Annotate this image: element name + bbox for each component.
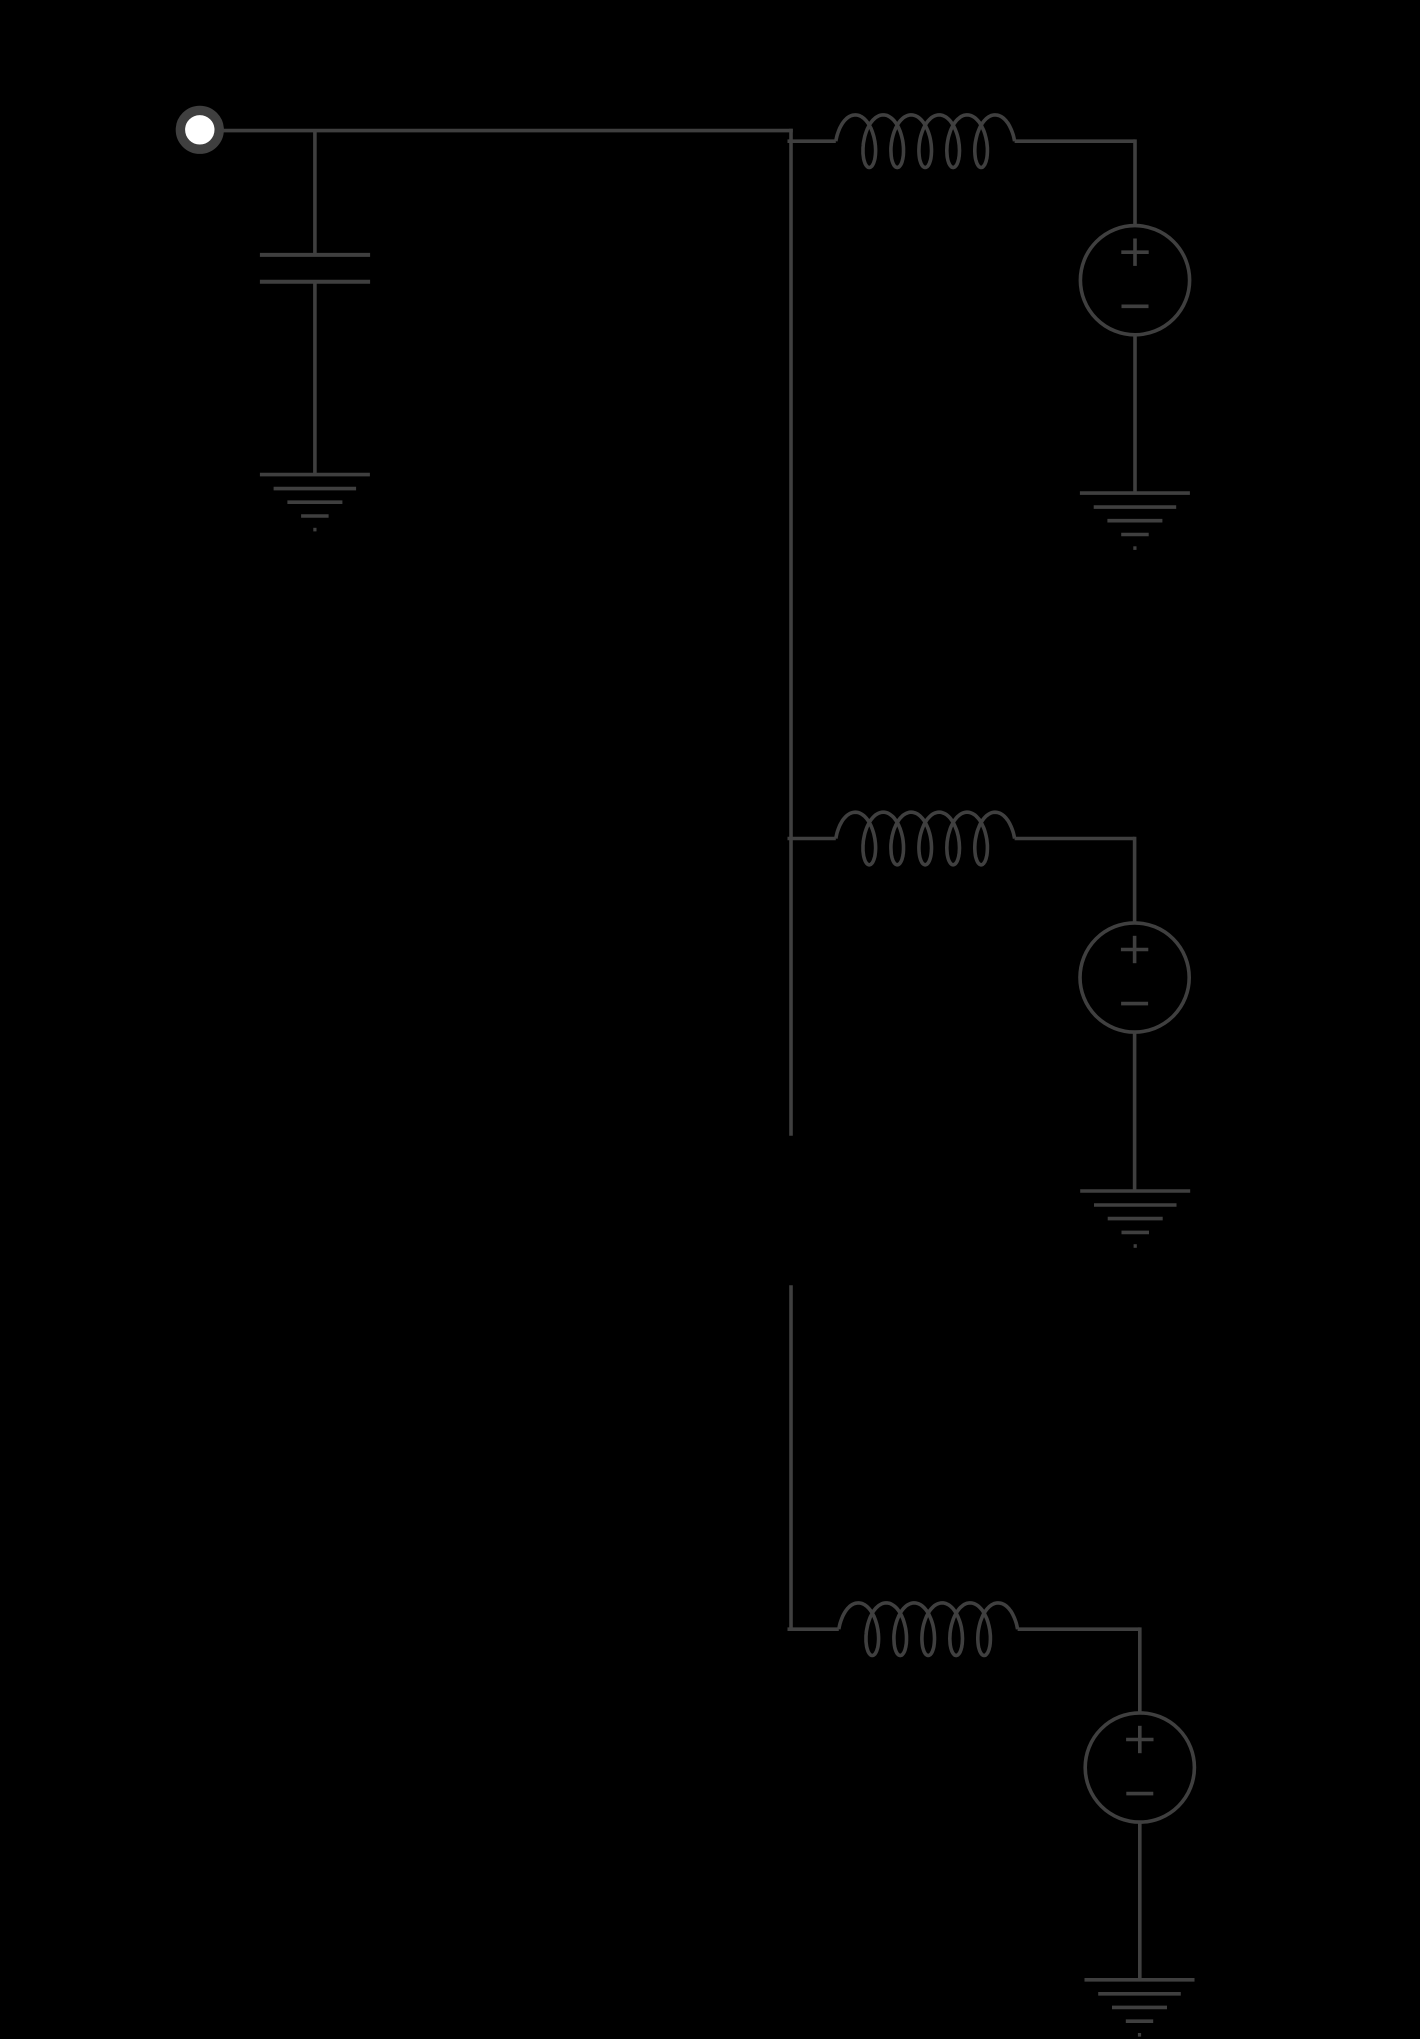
wire: inductor L1 to corner	[1015, 139, 1135, 143]
voltage source V2	[1080, 923, 1189, 1032]
wire: corner down to source V2	[1133, 837, 1137, 923]
wire: source V3 to ground	[1138, 1822, 1142, 1980]
wire: capacitor to ground	[313, 282, 317, 475]
wire: inductor L3 to corner	[1018, 1627, 1140, 1631]
inductor L1	[836, 115, 1015, 168]
ground (branch 2)	[1080, 1191, 1190, 1246]
ground (capacitor branch)	[260, 475, 370, 530]
wire: corner down to source V1	[1133, 139, 1137, 225]
wire: top branch lead from bus to inductor	[788, 139, 836, 143]
inductor L3	[839, 1603, 1018, 1656]
wire: middle branch lead from bus to inductor	[788, 837, 836, 841]
wire: inductor L2 to corner	[1015, 837, 1135, 841]
wire: vertical bus lower segment	[789, 1285, 793, 1631]
inductor L2	[836, 812, 1015, 865]
voltage source V1	[1080, 226, 1189, 335]
capacitor C1 top plate	[260, 253, 370, 257]
wire: source V1 to ground	[1133, 335, 1137, 493]
voltage source V3	[1085, 1713, 1194, 1822]
ground (branch 3)	[1085, 1980, 1195, 2035]
wire: capacitor branch drop	[313, 131, 317, 255]
wire: corner down to source V3	[1138, 1627, 1142, 1713]
wire: source V2 to ground	[1133, 1032, 1137, 1191]
wire: input node to bus	[219, 129, 793, 133]
wire: vertical bus upper segment	[789, 129, 793, 1136]
wire: bottom branch lead from bus to inductor	[788, 1627, 839, 1631]
node: input terminal	[180, 110, 219, 149]
ground (branch 1)	[1080, 493, 1190, 548]
capacitor C1 bottom plate	[260, 280, 370, 284]
